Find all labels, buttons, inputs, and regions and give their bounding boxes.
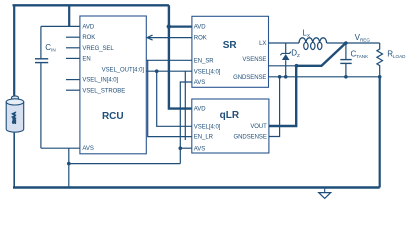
svg-text:GNDSENSE: GNDSENSE (233, 75, 266, 81)
svg-text:VREG_SEL: VREG_SEL (82, 46, 114, 52)
wire battery bottom to ground rail (13, 133, 15, 188)
svg-text:LX: LX (303, 28, 311, 38)
wire qLR AVS stub (180, 147, 192, 149)
svg-text:ROK: ROK (82, 35, 95, 41)
block RCU (80, 16, 146, 154)
svg-text:VREG: VREG (355, 33, 371, 43)
ROK arrowhead into RCU (147, 35, 153, 40)
svg-text:VSEL[4:0]: VSEL[4:0] (194, 124, 221, 130)
inductor LX coil (299, 38, 327, 43)
node gndsense CTANK (344, 75, 348, 79)
node VSEL branch (155, 69, 159, 73)
svg-text:VSEL_IN[4:0]: VSEL_IN[4:0] (82, 78, 118, 84)
svg-text:EN_SR: EN_SR (194, 58, 214, 64)
wire vertical branch from VSEL line (184, 71, 186, 140)
svg-text:EN: EN (82, 57, 90, 63)
wire VSEL riser to qLR (157, 71, 192, 126)
wire inductor to VREG node and RLOAD (327, 42, 380, 44)
capacitor CTANK (345, 43, 347, 59)
capacitor CIN (40, 26, 42, 58)
svg-text:qLR: qLR (220, 110, 240, 121)
svg-text:RLOAD: RLOAD (387, 50, 406, 60)
svg-text:CIN: CIN (45, 43, 55, 53)
wire VIN branch to RCU AVD (thick vertical) (68, 5, 70, 26)
node gndsense qLR riser (278, 75, 282, 79)
wire EN_LR riser (148, 60, 192, 136)
wire AVS drop to AVS bus (68, 148, 70, 163)
svg-text:AVS: AVS (194, 146, 205, 152)
wire EN net RCU to SR EN_SR (146, 59, 192, 61)
svg-text:AVS: AVS (194, 80, 205, 86)
svg-text:VOUT: VOUT (250, 124, 267, 130)
node AVS bus left (67, 162, 71, 166)
svg-text:VSEL_OUT[4:0]: VSEL_OUT[4:0] (102, 68, 145, 74)
wire GNDSENSE line SR to RLOAD bottom (269, 76, 380, 78)
ground symbol (324, 189, 326, 193)
svg-text:LX: LX (259, 41, 266, 47)
wire RCU AVD line (CIN top to RCU) (41, 25, 80, 27)
svg-text:VSENSE: VSENSE (242, 57, 266, 63)
svg-text:RCU: RCU (102, 111, 124, 122)
wire ROK SR to RCU (148, 37, 192, 39)
wire top VIN rail (thick) (14, 5, 169, 6)
wire AVS bus to ground rail (68, 164, 70, 188)
wire qLR VOUT (thick) up and diagonal to VREG (269, 66, 296, 126)
node gndsense DZ (284, 75, 288, 79)
wire bottom ground rail (thick) (13, 186, 380, 188)
wire RCU AVS line (CIN bottom to RCU) (41, 147, 80, 149)
battery B1 2xAA (6, 96, 24, 132)
wire VIN rail drop to battery (13, 5, 15, 95)
svg-text:VSEL_STROBE: VSEL_STROBE (82, 88, 125, 94)
svg-text:AVD: AVD (194, 25, 206, 31)
block SR (192, 16, 269, 87)
resistor RLOAD (377, 43, 383, 77)
wire VSEL_OUT net RCU to SR VSEL (146, 70, 192, 72)
svg-text:VSEL[4:0]: VSEL[4:0] (194, 69, 221, 75)
svg-text:DZ: DZ (291, 49, 300, 59)
svg-text:EN_LR: EN_LR (194, 135, 214, 141)
node qLR AVS junction (179, 146, 183, 150)
wire qLR GNDSENSE riser (269, 77, 280, 137)
node VSENSE/VOUT junction (295, 64, 299, 68)
block qLR (192, 99, 269, 153)
svg-text:ROK: ROK (194, 36, 207, 42)
wire SR VSENSE to VOUT riser (269, 65, 297, 67)
zener diode DZ (285, 43, 287, 53)
svg-text:AVD: AVD (82, 25, 94, 31)
svg-text:SR: SR (223, 40, 238, 51)
wire RLOAD bottom to ground rail (thick) (379, 77, 381, 188)
node gndsense RLOAD (378, 75, 382, 79)
RCU unconnected stubs ROK VREG_SEL EN VSEL_IN VSEL_STROBE (66, 36, 80, 38)
wire AVS bus riser to qLR/SR AVS (180, 82, 192, 164)
wire AVD rail right drop (thick) to qLR AVD (169, 5, 192, 108)
wire LX to inductor (269, 42, 300, 44)
svg-text:2xAA: 2xAA (12, 111, 18, 123)
svg-text:AVS: AVS (82, 146, 93, 152)
wire AVS bus horizontal (69, 163, 181, 165)
wire SR AVD stub from rail (169, 26, 192, 28)
svg-text:GNDSENSE: GNDSENSE (234, 135, 267, 141)
svg-text:CTANK: CTANK (351, 49, 370, 59)
node junction rail/SR AVD (167, 24, 171, 28)
svg-text:AVD: AVD (194, 107, 206, 113)
node VREG (344, 41, 348, 45)
